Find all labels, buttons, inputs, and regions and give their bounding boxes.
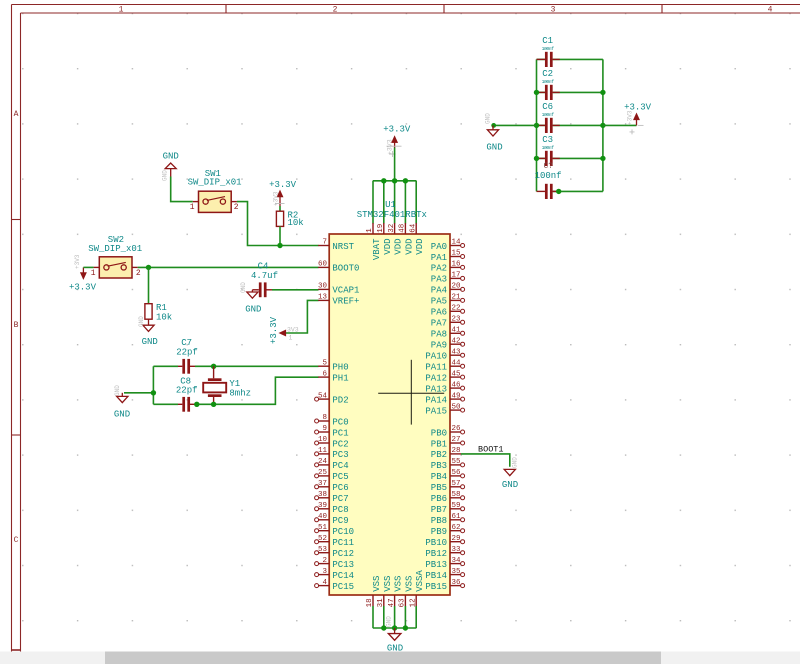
wire cap row C2 bbox=[537, 91, 603, 93]
pin 36 PB15 (right) bbox=[425, 579, 464, 592]
svg-text:PB3: PB3 bbox=[431, 461, 447, 471]
capacitor C7 22pf bbox=[176, 338, 198, 374]
svg-text:PB15: PB15 bbox=[425, 582, 447, 592]
pin 9 PC1 (left) bbox=[315, 425, 349, 438]
svg-text:10k: 10k bbox=[288, 218, 304, 228]
svg-text:2: 2 bbox=[333, 6, 338, 15]
pin 25 PC5 (left) bbox=[315, 469, 349, 482]
svg-text:PC14: PC14 bbox=[332, 571, 354, 581]
junction bank bottom row bbox=[556, 189, 561, 194]
svg-text:GND: GND bbox=[245, 305, 261, 315]
svg-text:PH0: PH0 bbox=[332, 363, 348, 373]
svg-text:+3.3V: +3.3V bbox=[269, 180, 297, 190]
wire cap row C3 bbox=[537, 157, 603, 159]
power symbol GND (below BOOT1 wire) bbox=[502, 457, 519, 490]
svg-text:22pf: 22pf bbox=[176, 386, 198, 396]
svg-text:PA0: PA0 bbox=[431, 242, 447, 252]
svg-text:GND: GND bbox=[386, 616, 393, 627]
svg-text:60: 60 bbox=[318, 261, 328, 269]
svg-text:8: 8 bbox=[322, 414, 327, 422]
scrollbar track bbox=[0, 652, 800, 664]
svg-text:46: 46 bbox=[452, 381, 462, 389]
svg-text:VREF+: VREF+ bbox=[332, 297, 359, 307]
wire VREF+ to +3.3V arrow bbox=[286, 300, 319, 333]
svg-text:VSS: VSS bbox=[404, 576, 414, 592]
wire cap row C6 bbox=[537, 124, 603, 126]
resistor R1 bbox=[145, 303, 172, 323]
pin 33 PB12 (right) bbox=[425, 546, 464, 559]
svg-text:GND: GND bbox=[485, 113, 492, 124]
svg-text:9: 9 bbox=[322, 425, 327, 433]
svg-text:1: 1 bbox=[190, 203, 195, 212]
junction GND wire end bbox=[491, 123, 496, 128]
wire bottom rail (C8 row) to PH1 riser bbox=[153, 377, 318, 404]
svg-text:PC13: PC13 bbox=[332, 560, 354, 570]
junction bank right rail bbox=[600, 156, 605, 161]
svg-text:10k: 10k bbox=[156, 313, 172, 323]
svg-text:PC10: PC10 bbox=[332, 527, 354, 537]
svg-text:23: 23 bbox=[452, 316, 462, 324]
power symbol GND (top left, rotated 180) bbox=[162, 152, 179, 182]
wire +3.3V spur from bank bbox=[603, 124, 637, 126]
pin 7 NRST (left) bbox=[318, 239, 354, 252]
svg-text:6: 6 bbox=[322, 370, 327, 378]
svg-text:48: 48 bbox=[399, 224, 407, 233]
svg-text:PA14: PA14 bbox=[425, 395, 447, 405]
pin 62 PB9 (right) bbox=[431, 524, 465, 537]
wire cap row C? (bottom) bbox=[553, 190, 603, 192]
junction C8 right bbox=[194, 402, 199, 407]
svg-text:BOOT0: BOOT0 bbox=[332, 264, 359, 274]
capacitor C8 22pf bbox=[176, 377, 198, 412]
svg-text:PA13: PA13 bbox=[425, 384, 447, 394]
wire C7 left to rail bbox=[153, 365, 178, 367]
svg-text:PB4: PB4 bbox=[431, 472, 447, 482]
pin 14 PA0 (right) bbox=[431, 239, 465, 252]
svg-text:GND: GND bbox=[502, 480, 518, 490]
pin 56 PB4 (right) bbox=[431, 469, 465, 482]
svg-text:VBAT: VBAT bbox=[372, 238, 382, 260]
wire bank left rail bbox=[536, 59, 538, 191]
pin 60 BOOT0 (left) bbox=[318, 261, 359, 274]
svg-text:8mhz: 8mhz bbox=[229, 388, 251, 398]
switch SW1 SW_DIP_x01 bbox=[188, 169, 242, 212]
svg-text:100nf: 100nf bbox=[542, 112, 555, 118]
svg-text:R1: R1 bbox=[156, 303, 167, 313]
IC U1 STM32F401RBTx body bbox=[329, 200, 450, 595]
junction above Y1 bbox=[211, 364, 216, 369]
svg-text:PC12: PC12 bbox=[332, 549, 354, 559]
svg-text:C1: C1 bbox=[542, 36, 553, 46]
wire bank right rail bbox=[602, 59, 604, 191]
wire VDD riser 64 bbox=[415, 181, 417, 224]
svg-text:58: 58 bbox=[452, 491, 461, 499]
svg-text:100nf: 100nf bbox=[542, 145, 555, 151]
pin 52 PC11 (left) bbox=[315, 535, 354, 548]
svg-text:28: 28 bbox=[452, 447, 461, 455]
svg-text:PA4: PA4 bbox=[431, 286, 447, 296]
svg-text:10: 10 bbox=[318, 436, 328, 444]
svg-text:C7: C7 bbox=[181, 338, 192, 348]
pin 6 PH1 (left) bbox=[318, 370, 348, 383]
wire VDD riser 19 bbox=[383, 181, 385, 224]
wire GND to SW1 pin 1 bbox=[171, 177, 193, 202]
junction VDD bus 32 bbox=[392, 178, 397, 183]
svg-text:56: 56 bbox=[452, 469, 462, 477]
svg-text:100nf: 100nf bbox=[542, 46, 555, 52]
svg-text:13: 13 bbox=[318, 294, 328, 302]
svg-text:14: 14 bbox=[452, 239, 462, 247]
svg-text:VCAP1: VCAP1 bbox=[332, 286, 359, 296]
svg-text:2: 2 bbox=[234, 203, 239, 212]
svg-text:+3.3V: +3.3V bbox=[269, 316, 279, 344]
svg-text:35: 35 bbox=[452, 568, 462, 576]
junction VSS rail 63 bbox=[403, 625, 408, 630]
svg-text:+3.3V: +3.3V bbox=[383, 125, 411, 135]
power symbol +3.3V (above R2) bbox=[269, 180, 297, 206]
capacitor C6 100nf bbox=[537, 102, 560, 133]
pin 10 PC2 (left) bbox=[315, 436, 349, 449]
pin 8 PC0 (left) bbox=[315, 414, 349, 427]
pin 30 VCAP1 (left) bbox=[318, 283, 359, 296]
pin 48 VDD (top) bbox=[399, 223, 415, 255]
svg-text:PC6: PC6 bbox=[332, 483, 348, 493]
svg-text:PB10: PB10 bbox=[425, 538, 447, 548]
wire GND spur to bank bbox=[494, 124, 537, 126]
pin 35 PB14 (right) bbox=[425, 568, 464, 581]
wire +3.3V to R2 top bbox=[279, 206, 281, 211]
pin 4 PC15 (left) bbox=[315, 579, 354, 592]
svg-text:PB13: PB13 bbox=[425, 560, 447, 570]
junction bank right rail bbox=[600, 90, 605, 95]
svg-text:57: 57 bbox=[452, 480, 461, 488]
svg-text:+3V3: +3V3 bbox=[74, 254, 81, 269]
wire +3.3V down to VDD bus bbox=[394, 148, 396, 181]
svg-text:2: 2 bbox=[136, 269, 141, 278]
svg-text:22: 22 bbox=[452, 305, 461, 313]
junction VDD bus 19 bbox=[381, 178, 386, 183]
svg-text:27: 27 bbox=[452, 436, 461, 444]
wire VDD riser 48 bbox=[404, 181, 406, 224]
junction bank left rail bbox=[534, 90, 539, 95]
wire C7 right to PH0 bbox=[195, 365, 319, 367]
svg-text:VSS: VSS bbox=[383, 576, 393, 592]
pin 3 PC14 (left) bbox=[315, 568, 354, 581]
svg-text:PC3: PC3 bbox=[332, 450, 348, 460]
svg-text:37: 37 bbox=[318, 480, 327, 488]
pin 38 PC7 (left) bbox=[315, 491, 349, 504]
power symbol GND (left of crystal rail) bbox=[114, 385, 130, 420]
svg-text:PC7: PC7 bbox=[332, 494, 348, 504]
pin 11 PC3 (left) bbox=[315, 447, 349, 460]
svg-text:PC1: PC1 bbox=[332, 428, 348, 438]
svg-text:VDD: VDD bbox=[383, 239, 393, 255]
svg-text:+3.3V: +3.3V bbox=[69, 283, 97, 293]
svg-text:30: 30 bbox=[318, 283, 328, 291]
pin 22 PA6 (right) bbox=[431, 305, 465, 318]
svg-text:5: 5 bbox=[322, 359, 327, 367]
pin 61 PB8 (right) bbox=[431, 513, 465, 526]
junction SW2 / R1 node bbox=[146, 265, 151, 270]
pin 39 PC8 (left) bbox=[315, 502, 349, 515]
svg-text:1: 1 bbox=[91, 269, 96, 278]
svg-text:4: 4 bbox=[768, 6, 773, 15]
svg-text:24: 24 bbox=[318, 458, 328, 466]
svg-text:VSS: VSS bbox=[394, 576, 404, 592]
junction below Y1 bbox=[211, 402, 216, 407]
pin 59 PB7 (right) bbox=[431, 502, 465, 515]
svg-text:VSSA: VSSA bbox=[415, 570, 425, 592]
svg-text:NRST: NRST bbox=[332, 242, 354, 252]
pin 29 PB10 (right) bbox=[425, 535, 464, 548]
wire GND spur to left rail bbox=[124, 392, 153, 394]
capacitor C1 100nf bbox=[537, 36, 560, 67]
pin 13 VREF+ (left) bbox=[318, 294, 359, 307]
pin 20 PA4 (right) bbox=[431, 283, 465, 296]
junction VDD bus 48 bbox=[403, 178, 408, 183]
pin 23 PA7 (right) bbox=[431, 316, 465, 329]
svg-text:63: 63 bbox=[399, 598, 407, 608]
power symbol +3.3V (above U1) bbox=[383, 125, 411, 158]
svg-text:4: 4 bbox=[322, 579, 327, 587]
svg-text:PC2: PC2 bbox=[332, 439, 348, 449]
svg-text:17: 17 bbox=[452, 272, 461, 280]
svg-text:VDD: VDD bbox=[394, 239, 404, 255]
svg-text:32: 32 bbox=[388, 224, 396, 233]
svg-text:PC15: PC15 bbox=[332, 582, 354, 592]
cursor crosshair bbox=[378, 360, 444, 425]
svg-text:PB1: PB1 bbox=[431, 439, 447, 449]
pin 27 PB1 (right) bbox=[431, 436, 465, 449]
svg-text:16: 16 bbox=[452, 261, 462, 269]
svg-text:PC4: PC4 bbox=[332, 461, 348, 471]
svg-text:43: 43 bbox=[452, 348, 462, 356]
junction bank left rail bbox=[534, 123, 539, 128]
svg-text:39: 39 bbox=[318, 502, 327, 510]
scrollbar thumb bbox=[105, 652, 661, 664]
pin 53 PC12 (left) bbox=[315, 546, 354, 559]
wire VBAT riser bbox=[372, 181, 374, 224]
svg-text:59: 59 bbox=[452, 502, 461, 510]
pin 40 PC9 (left) bbox=[315, 513, 349, 526]
pin 28 PB2 (right) bbox=[431, 447, 461, 460]
svg-text:PH1: PH1 bbox=[332, 373, 348, 383]
svg-text:PA7: PA7 bbox=[431, 319, 447, 329]
svg-text:61: 61 bbox=[452, 513, 462, 521]
svg-text:34: 34 bbox=[452, 557, 462, 565]
svg-text:BOOT1: BOOT1 bbox=[478, 444, 504, 454]
wire VSS drop 63 bbox=[404, 606, 406, 628]
pin 50 PA15 (right) bbox=[425, 403, 464, 416]
pin 12 VSSA (bottom) bbox=[409, 570, 425, 608]
power symbol GND (left of C4) bbox=[240, 282, 261, 315]
svg-text:PA15: PA15 bbox=[425, 406, 447, 416]
svg-text:PB12: PB12 bbox=[425, 549, 447, 559]
wire +3.3V to SW2 pin 1 bbox=[83, 266, 93, 268]
pin 42 PA9 (right) bbox=[431, 337, 465, 350]
svg-text:U1: U1 bbox=[385, 200, 396, 210]
svg-text:38: 38 bbox=[318, 491, 327, 499]
svg-text:1: 1 bbox=[366, 228, 374, 233]
junction R2 / NRST net bbox=[277, 243, 282, 248]
junction left rail / GND spur bbox=[151, 390, 156, 395]
svg-text:64: 64 bbox=[409, 223, 417, 233]
junction VSS rail 31 bbox=[381, 625, 386, 630]
svg-text:44: 44 bbox=[452, 359, 462, 367]
svg-text:SW_DIP_x01: SW_DIP_x01 bbox=[88, 244, 142, 254]
svg-text:1: 1 bbox=[119, 6, 124, 15]
pin 43 PA10 (right) bbox=[425, 348, 464, 361]
wire left rail down bbox=[152, 366, 154, 404]
pin 58 PB6 (right) bbox=[431, 491, 465, 504]
power symbol GND (below R1) bbox=[138, 316, 158, 347]
svg-text:49: 49 bbox=[452, 392, 461, 400]
svg-text:SW_DIP_x01: SW_DIP_x01 bbox=[188, 178, 242, 188]
svg-text:PA5: PA5 bbox=[431, 297, 447, 307]
svg-text:PC11: PC11 bbox=[332, 538, 354, 548]
crystal Y1 8mhz bbox=[203, 366, 251, 404]
pin 21 PA5 (right) bbox=[431, 294, 465, 307]
svg-text:45: 45 bbox=[452, 370, 462, 378]
svg-text:50: 50 bbox=[452, 403, 462, 411]
wire VSS drop 47 bbox=[394, 606, 396, 628]
wire C4 to VCAP1 bbox=[272, 289, 319, 291]
pin 57 PB5 (right) bbox=[431, 480, 465, 493]
power symbol +3.3V (left of SW2, rotated 180) bbox=[69, 254, 97, 292]
pin 37 PC6 (left) bbox=[315, 480, 349, 493]
svg-text:+3V3: +3V3 bbox=[627, 110, 634, 125]
pin 17 PA3 (right) bbox=[431, 272, 465, 285]
svg-text:PB8: PB8 bbox=[431, 516, 447, 526]
svg-text:53: 53 bbox=[318, 546, 328, 554]
wire VDD bus horizontal bbox=[373, 180, 417, 182]
svg-text:PB0: PB0 bbox=[431, 428, 447, 438]
svg-text:PB7: PB7 bbox=[431, 505, 447, 515]
wire VSSA drop 12 bbox=[415, 606, 417, 628]
pin 63 VSS (bottom) bbox=[399, 576, 415, 608]
svg-text:22pf: 22pf bbox=[176, 347, 198, 357]
svg-text:15: 15 bbox=[452, 250, 462, 258]
pin 18 VSS (bottom) bbox=[366, 576, 382, 608]
pin 5 PH0 (left) bbox=[318, 359, 348, 372]
svg-text:GND: GND bbox=[162, 170, 169, 181]
svg-text:41: 41 bbox=[452, 327, 462, 335]
svg-text:40: 40 bbox=[318, 513, 328, 521]
pin 24 PC4 (left) bbox=[315, 458, 349, 471]
svg-text:PC8: PC8 bbox=[332, 505, 348, 515]
svg-text:3V3: 3V3 bbox=[287, 327, 299, 334]
pin 34 PB13 (right) bbox=[425, 557, 464, 570]
resistor R2 bbox=[276, 211, 303, 229]
svg-text:PA11: PA11 bbox=[425, 363, 447, 373]
svg-text:GND: GND bbox=[138, 316, 145, 327]
svg-text:51: 51 bbox=[318, 524, 328, 532]
svg-text:C6: C6 bbox=[542, 102, 553, 112]
wire VSS drop 18 bbox=[372, 606, 374, 628]
svg-text:PA12: PA12 bbox=[425, 373, 447, 383]
wire junction down to R1 bbox=[148, 267, 150, 303]
power symbol +3.3V (right of bank) bbox=[624, 103, 652, 135]
pin 31 VSS (bottom) bbox=[377, 576, 393, 608]
svg-text:52: 52 bbox=[318, 535, 327, 543]
svg-text:GND: GND bbox=[142, 337, 158, 347]
capacitor C2 100nf bbox=[537, 69, 560, 100]
svg-text:GND: GND bbox=[163, 152, 179, 162]
pin 16 PA2 (right) bbox=[431, 261, 465, 274]
svg-text:PA1: PA1 bbox=[431, 253, 447, 263]
svg-text:42: 42 bbox=[452, 337, 461, 345]
pin 41 PA8 (right) bbox=[431, 327, 465, 340]
wire VDD riser 32 bbox=[394, 181, 396, 224]
svg-text:PA10: PA10 bbox=[425, 352, 447, 362]
wire VSS drop 31 bbox=[383, 606, 385, 628]
svg-text:GND: GND bbox=[240, 282, 247, 293]
svg-text:C?: C? bbox=[543, 162, 553, 171]
svg-text:33: 33 bbox=[452, 546, 462, 554]
svg-text:PB6: PB6 bbox=[431, 494, 447, 504]
svg-text:36: 36 bbox=[452, 579, 462, 587]
pin 19 VDD (top) bbox=[377, 223, 393, 255]
wire VSS rail bbox=[373, 627, 417, 629]
pin 15 PA1 (right) bbox=[431, 250, 465, 263]
svg-text:PB14: PB14 bbox=[425, 571, 447, 581]
svg-text:4.7uf: 4.7uf bbox=[251, 271, 278, 281]
svg-text:PC9: PC9 bbox=[332, 516, 348, 526]
pin 54 PD2 (left) bbox=[315, 392, 349, 405]
svg-text:PB2: PB2 bbox=[431, 450, 447, 460]
pin 64 VDD (top) bbox=[409, 223, 425, 255]
svg-text:GND: GND bbox=[114, 410, 130, 420]
capacitor C4 4.7uf bbox=[251, 262, 278, 298]
power symbol GND (below U1) bbox=[386, 616, 404, 654]
svg-text:PA8: PA8 bbox=[431, 330, 447, 340]
svg-text:100nf: 100nf bbox=[542, 79, 555, 85]
junction bank left rail bbox=[534, 156, 539, 161]
svg-text:54: 54 bbox=[318, 392, 328, 400]
wire R2 bottom to NRST wire bbox=[279, 226, 281, 245]
svg-text:C: C bbox=[14, 536, 19, 545]
svg-text:31: 31 bbox=[377, 598, 385, 608]
wire cap row C1 bbox=[537, 58, 603, 60]
svg-text:20: 20 bbox=[452, 283, 462, 291]
svg-text:B: B bbox=[14, 321, 19, 330]
junction VSS rail 47 bbox=[392, 625, 397, 630]
svg-text:PB9: PB9 bbox=[431, 527, 447, 537]
svg-text:PC0: PC0 bbox=[332, 417, 348, 427]
svg-text:PA6: PA6 bbox=[431, 308, 447, 318]
pin 46 PA13 (right) bbox=[425, 381, 464, 394]
junction bank right rail bbox=[600, 123, 605, 128]
pin 1 VBAT (top) bbox=[366, 223, 382, 260]
svg-text:C2: C2 bbox=[542, 69, 553, 79]
pin 51 PC10 (left) bbox=[315, 524, 354, 537]
pin 55 PB3 (right) bbox=[431, 458, 465, 471]
pin 32 VDD (top) bbox=[388, 223, 404, 255]
svg-text:26: 26 bbox=[452, 425, 462, 433]
svg-text:2: 2 bbox=[322, 557, 327, 565]
svg-text:55: 55 bbox=[452, 458, 462, 466]
svg-text:PA2: PA2 bbox=[431, 264, 447, 274]
svg-text:11: 11 bbox=[318, 447, 328, 455]
svg-text:100nf: 100nf bbox=[535, 171, 562, 181]
wire SW2 pin 2 to BOOT0 bbox=[138, 266, 319, 268]
svg-text:3: 3 bbox=[551, 6, 556, 15]
svg-text:STM32F401RBTx: STM32F401RBTx bbox=[357, 210, 427, 220]
svg-text:A: A bbox=[14, 110, 19, 119]
svg-text:VDD: VDD bbox=[415, 239, 425, 255]
wire PB2 to BOOT1 / GND bbox=[461, 454, 510, 467]
svg-text:PA9: PA9 bbox=[431, 341, 447, 351]
